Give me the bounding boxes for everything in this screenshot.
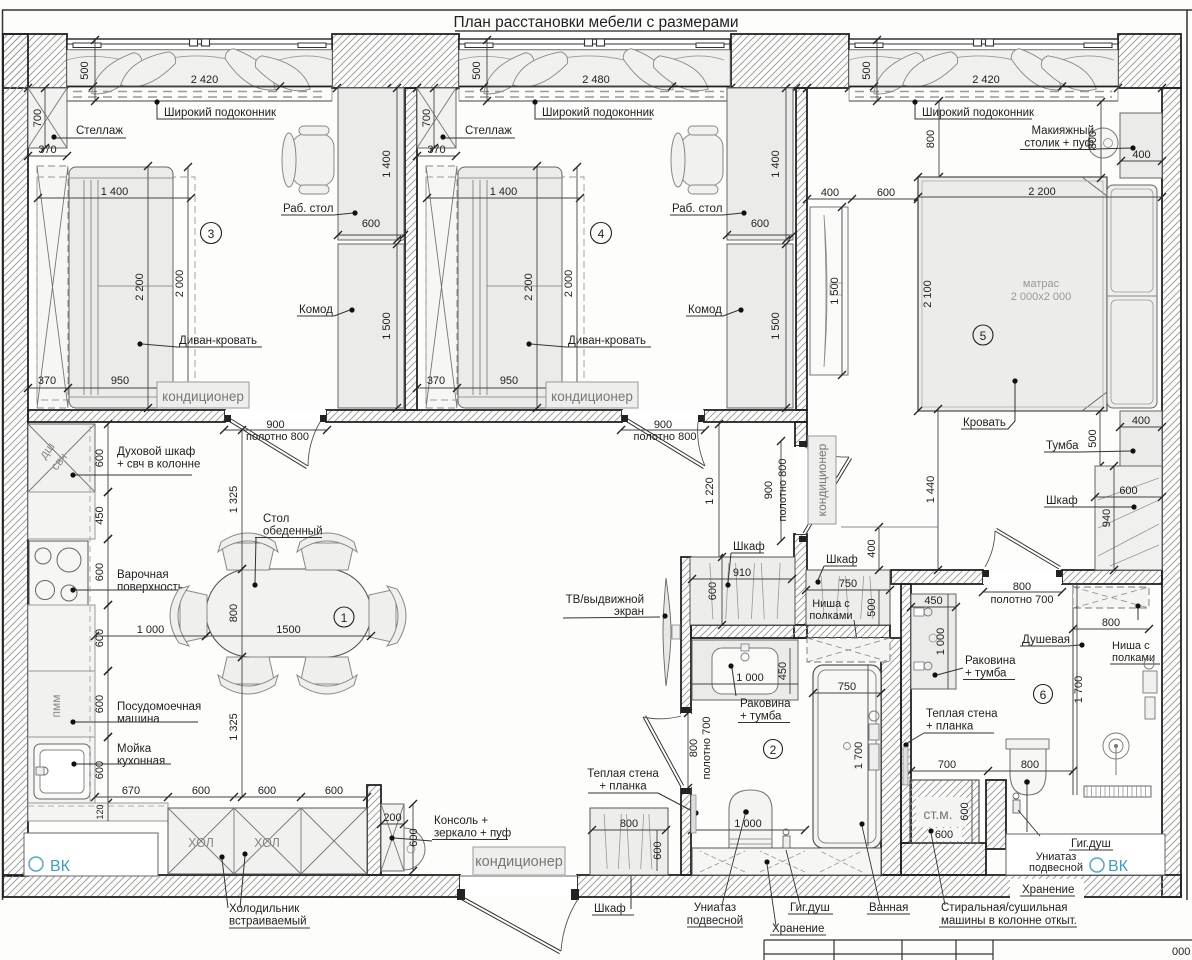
label bathtub — [859, 821, 910, 914]
dims table vertical — [228, 426, 246, 801]
svg-text:1 000: 1 000 — [734, 818, 762, 830]
bedroom TV panel — [810, 203, 848, 379]
svg-text:Униатаз: Униатаз — [694, 902, 736, 914]
dim door corridor — [763, 437, 789, 545]
svg-text:+ планка: + планка — [926, 721, 974, 733]
label storage bath6 — [1010, 879, 1084, 899]
svg-text:1 700: 1 700 — [853, 742, 865, 770]
svg-text:зеркало + пуф: зеркало + пуф — [434, 828, 511, 840]
wall pier kitchen bottom — [367, 785, 381, 875]
svg-text:экран: экран — [614, 606, 644, 618]
svg-text:2: 2 — [770, 743, 777, 757]
svg-text:500: 500 — [861, 61, 873, 79]
chair left — [170, 586, 207, 646]
svg-text:1 000: 1 000 — [137, 624, 165, 636]
svg-text:Хранение: Хранение — [1022, 884, 1074, 896]
dim 400-600 bedroom top — [803, 187, 922, 203]
dim 1700 bath — [853, 665, 868, 846]
bath2 hygienic shower — [783, 829, 790, 848]
svg-text:1 500: 1 500 — [829, 277, 841, 305]
bath6 label box — [1006, 785, 1165, 875]
svg-text:1 400: 1 400 — [490, 186, 518, 198]
bath6 hygienic shower — [1013, 793, 1020, 813]
svg-text:полками: полками — [1112, 652, 1155, 664]
svg-text:600: 600 — [408, 828, 420, 846]
makeup table — [1088, 113, 1162, 178]
kitchen counter mid — [28, 605, 95, 671]
svg-text:Раб. стол: Раб. стол — [283, 203, 333, 215]
label niche 750 — [809, 598, 860, 654]
svg-text:950: 950 — [500, 375, 518, 387]
corridor closet 910 — [690, 557, 795, 625]
svg-text:1: 1 — [341, 611, 348, 625]
wall band above bath2 — [691, 625, 890, 638]
dim 200 console — [377, 812, 408, 828]
svg-text:800: 800 — [1087, 131, 1099, 149]
kitchen oven column — [28, 424, 95, 492]
svg-text:полотно 700: полотно 700 — [701, 717, 713, 780]
svg-text:600: 600 — [94, 449, 106, 467]
svg-text:2 000: 2 000 — [563, 270, 575, 298]
svg-text:полотно 700: полотно 700 — [991, 594, 1054, 606]
svg-text:900: 900 — [763, 481, 775, 499]
svg-text:подвесной: подвесной — [687, 915, 743, 927]
svg-text:500: 500 — [471, 61, 483, 79]
svg-text:Мойка: Мойка — [117, 743, 152, 755]
svg-text:ВК: ВК — [1108, 858, 1129, 875]
svg-text:Широкий подоконник: Широкий подоконник — [164, 107, 277, 119]
svg-text:Ниша с: Ниша с — [1112, 640, 1150, 652]
svg-text:машины в колонне откыт.: машины в колонне откыт. — [941, 915, 1077, 927]
svg-text:800: 800 — [620, 818, 638, 830]
svg-text:Гиг.душ: Гиг.душ — [1071, 838, 1111, 850]
svg-text:+ тумба: + тумба — [740, 711, 782, 723]
label wide sill bedroom — [912, 99, 1035, 119]
svg-text:1 400: 1 400 — [770, 150, 782, 178]
label oven — [70, 446, 200, 478]
svg-text:Раковина: Раковина — [740, 698, 791, 710]
svg-text:1 325: 1 325 — [228, 486, 240, 514]
svg-text:Раковина: Раковина — [965, 655, 1016, 667]
svg-text:600: 600 — [325, 785, 343, 797]
bed headboard — [1107, 185, 1157, 408]
bath2 sink vanity — [692, 640, 798, 700]
label hyg shower bath2 — [786, 850, 833, 914]
svg-text:Макияжный: Макияжный — [1031, 125, 1094, 137]
svg-text:Стиральная/сушильная: Стиральная/сушильная — [941, 902, 1067, 914]
svg-text:полотно 800: полотно 800 — [777, 459, 789, 522]
door bath2 — [643, 707, 691, 794]
TV living room — [663, 578, 680, 686]
svg-text:+ свч в колонне: + свч в колонне — [117, 459, 200, 471]
svg-text:600: 600 — [362, 218, 380, 230]
svg-text:500: 500 — [79, 61, 91, 79]
label TV living — [563, 594, 668, 619]
svg-text:Варочная: Варочная — [117, 569, 169, 581]
svg-text:700: 700 — [32, 109, 44, 127]
svg-text:950: 950 — [111, 375, 129, 387]
wall left band — [3, 34, 28, 876]
svg-text:машина: машина — [117, 714, 160, 726]
wall below washing machine — [901, 843, 986, 875]
svg-text:450: 450 — [777, 662, 789, 680]
svg-text:400: 400 — [821, 187, 839, 199]
svg-text:3: 3 — [208, 227, 215, 241]
svg-text:000: 000 — [1172, 946, 1190, 958]
svg-text:ст.м.: ст.м. — [923, 806, 952, 822]
label cooktop — [70, 569, 187, 594]
shower head — [1103, 733, 1129, 775]
dims 700-800 bath6 — [907, 759, 1077, 775]
dim 800 bed-to-sill — [925, 97, 943, 181]
svg-text:ХОЛ: ХОЛ — [254, 836, 280, 850]
svg-text:6: 6 — [1040, 688, 1047, 702]
svg-text:Комод: Комод — [299, 304, 333, 316]
label wide sill room3 — [154, 99, 277, 119]
svg-text:столик + пуф: столик + пуф — [1024, 138, 1094, 150]
svg-text:обеденный: обеденный — [263, 526, 323, 538]
svg-text:Диван-кровать: Диван-кровать — [568, 335, 646, 347]
svg-text:600: 600 — [94, 761, 106, 779]
chair top-right — [297, 533, 357, 570]
svg-text:Консоль +: Консоль + — [434, 815, 488, 827]
svg-text:поверхность: поверхность — [117, 582, 184, 594]
dim 1000 bath2 — [688, 818, 809, 834]
svg-text:1 000: 1 000 — [935, 628, 947, 656]
svg-text:2 200: 2 200 — [1028, 186, 1056, 198]
label niche bath6 — [1110, 603, 1160, 664]
entrance door — [457, 875, 579, 954]
label шкаф bedroom — [1044, 495, 1137, 510]
svg-text:700: 700 — [938, 759, 956, 771]
dims fridge row — [91, 785, 371, 801]
svg-text:Ниша с: Ниша с — [812, 598, 850, 610]
dim 2100 bed — [914, 173, 934, 415]
title block table — [764, 940, 1192, 960]
svg-text:Душевая: Душевая — [1022, 634, 1070, 646]
bedside table (тумба) — [1120, 411, 1162, 466]
svg-text:800: 800 — [1021, 759, 1039, 771]
svg-text:400: 400 — [1132, 415, 1150, 427]
mattress label — [1011, 278, 1072, 303]
svg-text:370: 370 — [427, 375, 445, 387]
svg-text:1 700: 1 700 — [1073, 676, 1085, 704]
dim 400 closet — [841, 523, 938, 574]
dims closet 750 — [802, 578, 894, 625]
svg-text:кондиционер: кондиционер — [815, 443, 829, 516]
svg-text:Теплая стена: Теплая стена — [587, 768, 659, 780]
svg-text:1 500: 1 500 — [770, 312, 782, 340]
label bath2 sink — [728, 663, 791, 722]
svg-text:900: 900 — [266, 419, 284, 431]
label storage bath2 — [767, 864, 826, 935]
bath2 toilet — [729, 790, 772, 850]
svg-text:Холодильник: Холодильник — [229, 903, 300, 915]
svg-text:800: 800 — [1013, 581, 1031, 593]
room 3 furniture — [24, 84, 408, 412]
door corridor-bedroom — [796, 441, 852, 542]
svg-text:Ванная: Ванная — [869, 902, 908, 914]
room 6 circle — [1034, 685, 1053, 704]
svg-text:полками: полками — [809, 610, 852, 622]
svg-text:1 500: 1 500 — [381, 312, 393, 340]
dims bath6 vanity — [907, 594, 960, 689]
svg-text:400: 400 — [866, 539, 878, 557]
title — [453, 14, 738, 31]
svg-text:400: 400 — [1132, 149, 1150, 161]
svg-text:1 220: 1 220 — [704, 477, 716, 505]
kitchen dims column — [94, 420, 112, 807]
svg-text:пмм: пмм — [49, 695, 63, 718]
label warm wall bath2 — [587, 768, 698, 833]
wall bedroom bottom left piece — [891, 570, 983, 584]
label washing column — [931, 833, 1077, 927]
bed — [918, 177, 1107, 411]
shower column — [1143, 659, 1157, 719]
label closet 750 — [815, 554, 857, 585]
svg-text:910: 910 — [733, 567, 751, 579]
svg-text:600: 600 — [258, 785, 276, 797]
svg-text:500: 500 — [866, 598, 878, 616]
wall living-bath2 lower — [681, 788, 691, 875]
svg-text:600: 600 — [935, 829, 953, 841]
wall bath6 left — [901, 584, 911, 843]
svg-text:200: 200 — [383, 812, 401, 824]
svg-text:1 400: 1 400 — [381, 150, 393, 178]
chair bottom-left — [218, 657, 278, 694]
dishwasher — [28, 671, 95, 737]
wall pier between windows 2-3 — [731, 34, 849, 88]
svg-text:Широкий подоконник: Широкий подоконник — [542, 107, 655, 119]
bath6 toilet — [1006, 739, 1049, 795]
niche above bath — [807, 638, 890, 662]
dim 800 makeup — [1087, 98, 1105, 182]
kitchen bottom counter — [28, 803, 168, 821]
chair bottom-right — [297, 657, 357, 694]
svg-text:ХОЛ: ХОЛ — [188, 836, 214, 850]
label closet 910 — [725, 541, 764, 588]
door room 3 — [220, 410, 331, 469]
svg-text:4: 4 — [598, 227, 605, 241]
svg-text:кондиционер: кондиционер — [162, 389, 244, 404]
kitchen counter empty — [28, 492, 95, 539]
dim 800 niche — [1069, 617, 1153, 633]
svg-text:700: 700 — [421, 109, 433, 127]
svg-text:900: 900 — [654, 419, 672, 431]
window room 3 — [67, 36, 332, 105]
svg-text:Шкаф: Шкаф — [594, 903, 626, 915]
svg-text:1 325: 1 325 — [228, 713, 240, 741]
svg-text:Диван-кровать: Диван-кровать — [179, 335, 257, 347]
svg-text:800: 800 — [688, 739, 700, 757]
label toilet bath2 — [687, 815, 745, 927]
svg-text:500: 500 — [1087, 429, 1099, 447]
room 4 furniture — [413, 84, 797, 412]
svg-text:600: 600 — [94, 563, 106, 581]
air conditioner bedroom — [808, 436, 836, 524]
wall top-right corner block — [1118, 34, 1181, 88]
svg-text:940: 940 — [1101, 509, 1113, 527]
wall room4 bottom right piece — [704, 410, 807, 422]
closet 750 — [806, 570, 890, 625]
svg-text:Посудомоечная: Посудомоечная — [117, 701, 201, 713]
svg-text:Духовой шкаф: Духовой шкаф — [117, 446, 195, 458]
svg-text:Раб. стол: Раб. стол — [672, 203, 722, 215]
svg-text:кондиционер: кондиционер — [551, 389, 633, 404]
washing machine — [910, 780, 979, 843]
room 1 circle — [334, 607, 354, 627]
svg-text:План расстановки мебели с разм: План расстановки мебели с размерами — [453, 14, 738, 31]
wall right band — [1162, 88, 1181, 897]
wall face ticks top — [24, 84, 1166, 92]
svg-text:2 480: 2 480 — [582, 74, 610, 86]
label bed — [961, 378, 1018, 429]
chair right — [369, 586, 406, 646]
wall bedroom bottom right piece — [1062, 570, 1162, 584]
dim 2200 bed — [914, 186, 1166, 201]
dim 400 makeup — [1117, 149, 1166, 165]
svg-text:встраиваемый: встраиваемый — [229, 916, 307, 928]
svg-text:600: 600 — [94, 629, 106, 647]
dining table — [206, 569, 371, 657]
svg-text:Теплая стена: Теплая стена — [926, 708, 998, 720]
air conditioner living — [473, 847, 565, 875]
svg-text:600: 600 — [94, 695, 106, 713]
dim 1440 bedroom — [925, 405, 942, 574]
dim 600 console — [408, 800, 420, 875]
room 2 circle — [764, 740, 783, 759]
svg-text:Стеллаж: Стеллаж — [76, 125, 123, 137]
label шкаф bottom — [592, 858, 634, 915]
dim 500 тумба — [1087, 407, 1104, 470]
label sink — [71, 743, 171, 768]
svg-text:1 440: 1 440 — [925, 476, 937, 504]
dim 940 шкаф — [1101, 462, 1118, 574]
svg-text:Тумба: Тумба — [1046, 440, 1079, 452]
wall between doors rooms 3-4 — [326, 410, 622, 422]
svg-text:матрас: матрас — [1023, 278, 1060, 290]
dim door bath6 — [979, 581, 1066, 606]
wall living-bath2 upper — [681, 557, 691, 713]
dim 1220 corridor — [704, 420, 723, 562]
svg-text:120: 120 — [95, 804, 105, 819]
svg-text:2 100: 2 100 — [922, 280, 934, 308]
dim 1700 shower — [1073, 584, 1085, 795]
svg-text:750: 750 — [839, 578, 857, 590]
svg-text:1 000: 1 000 — [736, 672, 764, 684]
svg-text:кондиционер: кондиционер — [475, 854, 563, 870]
dims closet 910 — [688, 553, 796, 629]
svg-text:полотно 800: полотно 800 — [246, 431, 309, 443]
fridge cabinets ХОЛ — [168, 808, 367, 874]
window room 4 — [459, 36, 730, 105]
label fridge — [219, 851, 310, 928]
console mirror pouf — [381, 804, 425, 871]
svg-text:Гиг.душ: Гиг.душ — [790, 902, 830, 914]
wall divider rooms 3-4 — [405, 88, 417, 410]
chair top-left — [218, 533, 278, 570]
svg-text:2 000х2 000: 2 000х2 000 — [1011, 291, 1072, 303]
door bedroom-bath6 — [983, 528, 1062, 584]
svg-text:Стеллаж: Стеллаж — [465, 125, 512, 137]
wall divider room 4-bedroom — [796, 88, 807, 410]
svg-text:1500: 1500 — [276, 624, 300, 636]
wall corridor below door — [794, 534, 807, 638]
svg-text:600: 600 — [959, 802, 971, 820]
dim 400 тумба — [1116, 415, 1166, 431]
svg-text:670: 670 — [122, 785, 140, 797]
svg-text:800: 800 — [925, 130, 937, 148]
svg-text:+ планка: + планка — [599, 781, 647, 793]
label wide sill room4 — [532, 99, 655, 119]
window bedroom — [849, 36, 1118, 105]
svg-text:600: 600 — [707, 582, 719, 600]
dims bath2 sink — [692, 648, 798, 694]
svg-text:370: 370 — [38, 375, 56, 387]
dim door bath2 — [684, 709, 713, 792]
label console — [389, 815, 511, 841]
VK box kitchen — [24, 833, 158, 876]
svg-text:600: 600 — [877, 187, 895, 199]
wall pier between windows 1-2 — [332, 34, 459, 88]
bath6 vanity — [911, 594, 956, 689]
niche bath6 — [1073, 587, 1149, 608]
svg-text:ВК: ВК — [50, 858, 71, 875]
svg-text:подвесной: подвесной — [1029, 862, 1083, 874]
svg-text:370: 370 — [38, 144, 56, 156]
svg-text:Стол: Стол — [263, 513, 289, 525]
label bath6 sink — [932, 655, 1016, 680]
svg-text:ТВ/выдвижной: ТВ/выдвижной — [566, 594, 644, 606]
svg-text:600: 600 — [192, 785, 210, 797]
room 5 circle — [973, 325, 993, 345]
wall corridor stub above door — [795, 422, 807, 446]
svg-text:600: 600 — [652, 841, 664, 859]
svg-text:1 400: 1 400 — [101, 186, 129, 198]
bath2 storage strip — [692, 848, 881, 875]
label shower — [1020, 634, 1085, 648]
svg-text:Шкаф: Шкаф — [826, 554, 858, 566]
svg-text:полотно 800: полотно 800 — [634, 431, 697, 443]
bedroom wardrobe (шкаф) — [1095, 466, 1162, 570]
cooktop — [29, 541, 88, 606]
svg-text:Кровать: Кровать — [963, 417, 1006, 429]
label dishwasher — [70, 701, 201, 726]
closet near bath2 — [588, 808, 670, 875]
svg-text:750: 750 — [838, 681, 856, 693]
wall top-left corner block — [3, 34, 67, 88]
shower drain — [1084, 786, 1151, 797]
wall right of washing machine — [986, 780, 1006, 849]
svg-text:2 200: 2 200 — [523, 273, 535, 301]
svg-text:5: 5 — [980, 329, 987, 343]
svg-text:600: 600 — [1119, 485, 1137, 497]
svg-text:Хранение: Хранение — [772, 923, 824, 935]
label warm wall bath6 — [903, 708, 998, 785]
label тумба — [1044, 440, 1136, 454]
svg-text:Комод: Комод — [688, 304, 722, 316]
svg-text:800: 800 — [228, 604, 240, 622]
kitchen sink — [28, 737, 95, 803]
svg-text:800: 800 — [1102, 617, 1120, 629]
svg-text:2 420: 2 420 — [972, 74, 1000, 86]
dim 750 bath — [809, 681, 885, 697]
wall bottom band left of entrance door — [3, 875, 460, 897]
svg-text:450: 450 — [94, 506, 106, 524]
svg-text:2 200: 2 200 — [134, 273, 146, 301]
svg-text:370: 370 — [427, 144, 445, 156]
svg-text:2 420: 2 420 — [191, 74, 219, 86]
